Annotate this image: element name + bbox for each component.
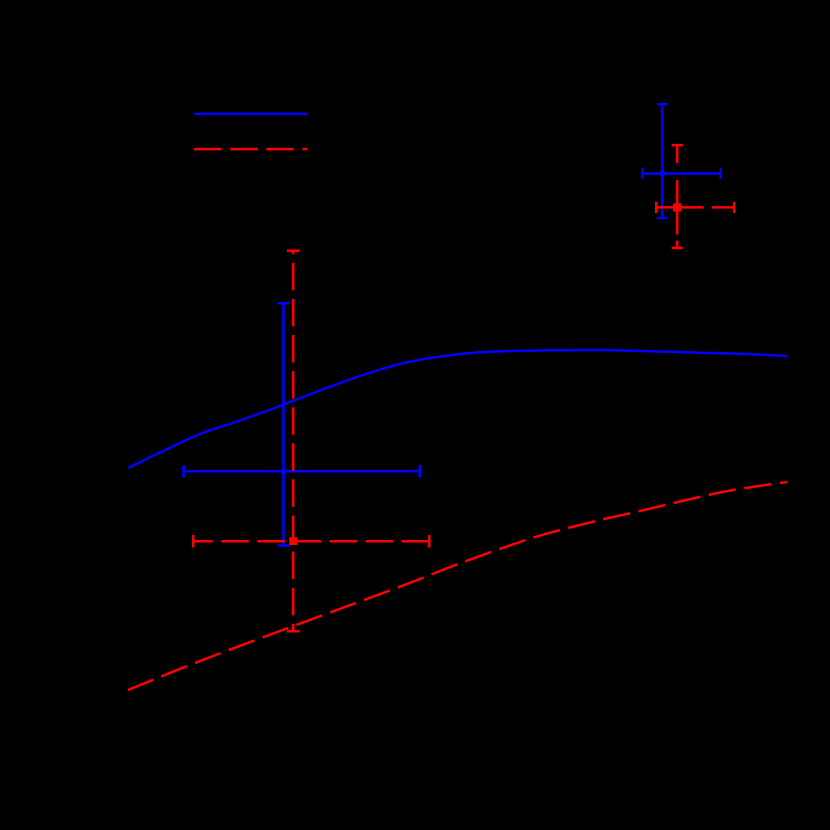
red curve (dashed)	[128, 482, 787, 690]
topright red errorbar: horizontal dashed line	[656, 206, 734, 209]
blue curve	[128, 350, 787, 468]
topright red errorbar: bottom cap	[672, 247, 683, 250]
central red errorbar: vertical dashed line	[292, 251, 295, 632]
topright red errorbar: top cap	[672, 144, 683, 147]
central blue marker	[279, 467, 288, 476]
topright blue errorbar: horizontal line	[643, 172, 721, 175]
central red errorbar: left cap	[192, 535, 195, 548]
topright blue errorbar: bottom cap	[657, 217, 668, 220]
central red marker	[289, 537, 297, 545]
central red errorbar: bottom cap	[287, 630, 300, 633]
central red errorbar: horizontal dashed line	[193, 540, 429, 543]
central blue errorbar: right cap	[419, 465, 422, 478]
central red errorbar: top cap	[287, 249, 300, 252]
central blue errorbar: left cap	[182, 465, 185, 478]
topright red errorbar: right cap	[733, 202, 736, 213]
central blue errorbar: top cap	[277, 302, 290, 305]
topright blue errorbar: vertical line	[661, 104, 664, 218]
topright blue marker	[658, 169, 667, 178]
legend line red (dashed model)	[194, 148, 307, 151]
legend line blue (solid model)	[194, 113, 307, 116]
topright red errorbar: left cap	[655, 202, 658, 213]
central red errorbar: right cap	[428, 535, 431, 548]
central blue errorbar: bottom cap	[277, 544, 290, 547]
topright blue errorbar: top cap	[657, 103, 668, 106]
central blue errorbar: vertical line	[282, 303, 285, 545]
topright red marker	[673, 203, 681, 211]
central blue errorbar: horizontal line	[184, 470, 420, 473]
topright blue errorbar: left cap	[641, 168, 644, 179]
topright red errorbar: vertical dashed line	[676, 145, 679, 248]
topright blue errorbar: right cap	[719, 168, 722, 179]
